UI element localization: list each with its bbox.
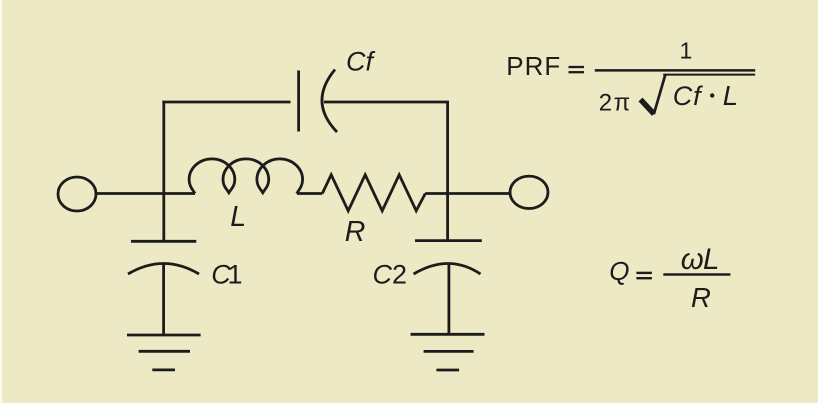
svg-text:2π: 2π [599,89,632,116]
svg-text:PRF: PRF [506,51,561,81]
svg-text:Q: Q [609,256,629,286]
svg-text:ωL: ωL [681,243,719,276]
svg-text:2: 2 [392,260,407,290]
svg-text:C: C [373,260,393,290]
svg-text:1: 1 [228,260,243,290]
svg-text:Cf: Cf [346,47,375,77]
svg-text:Cf: Cf [673,81,703,111]
svg-text:R: R [691,282,711,313]
svg-text:R: R [345,216,366,248]
svg-text:1: 1 [680,38,693,64]
svg-text:L: L [230,201,246,233]
svg-text:L: L [723,80,738,111]
